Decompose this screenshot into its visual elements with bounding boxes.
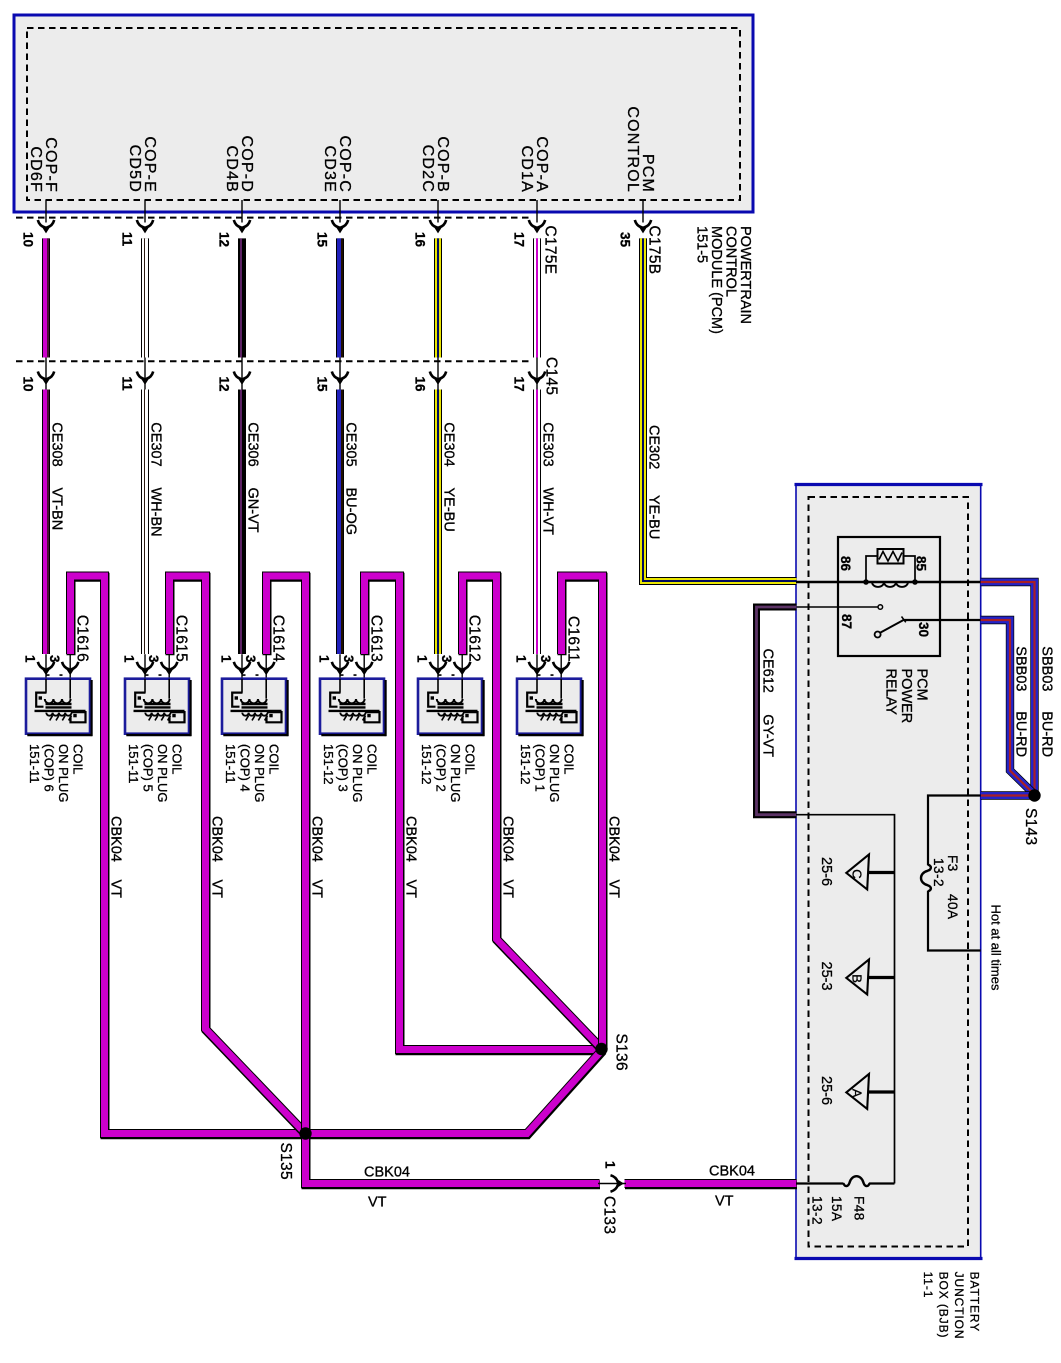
svg-text:WH-VT: WH-VT <box>540 488 556 536</box>
svg-text:1: 1 <box>23 655 38 663</box>
svg-text:CD2C: CD2C <box>419 145 436 193</box>
svg-text:PCM: PCM <box>914 669 930 701</box>
svg-text:B: B <box>850 974 865 983</box>
svg-text:(COP) 5: (COP) 5 <box>140 744 155 792</box>
svg-text:CE302: CE302 <box>646 425 662 469</box>
svg-text:CD5D: CD5D <box>126 145 143 193</box>
svg-text:VT: VT <box>108 880 124 899</box>
svg-text:C: C <box>850 869 865 878</box>
svg-text:10: 10 <box>21 232 36 247</box>
svg-text:CD3E: CD3E <box>321 146 338 193</box>
svg-text:13-2: 13-2 <box>809 1196 824 1225</box>
svg-text:S135: S135 <box>277 1143 294 1180</box>
svg-text:CBK04: CBK04 <box>709 1164 755 1180</box>
svg-text:1: 1 <box>122 655 137 663</box>
svg-text:17: 17 <box>512 232 527 247</box>
svg-text:A: A <box>850 1089 865 1098</box>
svg-text:3: 3 <box>439 655 454 663</box>
svg-text:CE307: CE307 <box>148 422 164 466</box>
svg-text:S143: S143 <box>1022 808 1039 845</box>
svg-text:3: 3 <box>47 655 62 663</box>
svg-text:30: 30 <box>916 622 931 637</box>
svg-text:GN-VT: GN-VT <box>245 488 261 533</box>
svg-text:S136: S136 <box>612 1034 629 1071</box>
svg-text:ON PLUG: ON PLUG <box>56 744 71 803</box>
svg-text:(COP) 3: (COP) 3 <box>335 744 350 792</box>
svg-text:CBK04: CBK04 <box>403 816 419 862</box>
svg-text:CE305: CE305 <box>343 422 359 466</box>
svg-text:JUNCTION: JUNCTION <box>952 1272 966 1340</box>
svg-text:85: 85 <box>914 556 929 572</box>
svg-text:GY-VT: GY-VT <box>759 714 775 757</box>
svg-text:C175E: C175E <box>542 226 559 275</box>
svg-text:15: 15 <box>315 377 330 393</box>
svg-text:POWER: POWER <box>898 669 914 724</box>
svg-text:CBK04: CBK04 <box>108 816 124 862</box>
svg-text:1: 1 <box>514 655 529 663</box>
svg-text:BU-RD: BU-RD <box>1038 711 1054 757</box>
svg-text:C1614: C1614 <box>270 615 287 662</box>
svg-text:COIL: COIL <box>70 744 85 774</box>
svg-text:COIL: COIL <box>462 744 477 774</box>
svg-text:CBK04: CBK04 <box>606 816 622 862</box>
svg-text:C1613: C1613 <box>368 615 385 662</box>
svg-text:(COP) 6: (COP) 6 <box>41 744 56 792</box>
svg-text:25-6: 25-6 <box>818 1076 834 1105</box>
svg-text:ON PLUG: ON PLUG <box>448 744 463 803</box>
svg-text:1: 1 <box>415 655 430 663</box>
svg-text:CE612: CE612 <box>759 649 775 693</box>
svg-text:151-12: 151-12 <box>518 744 533 784</box>
svg-text:VT: VT <box>500 880 516 899</box>
svg-text:11-1: 11-1 <box>921 1272 935 1299</box>
svg-text:(COP) 1: (COP) 1 <box>532 744 547 792</box>
svg-text:151-5: 151-5 <box>694 226 710 263</box>
svg-text:ON PLUG: ON PLUG <box>155 744 170 803</box>
svg-text:CBK04: CBK04 <box>309 816 325 862</box>
svg-text:10: 10 <box>21 377 36 392</box>
svg-text:CBK04: CBK04 <box>500 816 516 862</box>
svg-text:VT: VT <box>309 880 325 899</box>
svg-text:86: 86 <box>838 556 853 572</box>
svg-text:3: 3 <box>243 655 258 663</box>
svg-text:3: 3 <box>341 655 356 663</box>
svg-text:WH-BN: WH-BN <box>148 488 164 537</box>
svg-text:YE-BU: YE-BU <box>646 495 662 539</box>
svg-text:151-11: 151-11 <box>27 744 42 784</box>
svg-text:1: 1 <box>219 655 234 663</box>
svg-text:16: 16 <box>413 377 428 393</box>
svg-text:11: 11 <box>120 377 135 392</box>
svg-text:CD4B: CD4B <box>223 146 240 193</box>
svg-text:25-3: 25-3 <box>818 962 834 991</box>
svg-text:15: 15 <box>315 232 330 248</box>
svg-text:16: 16 <box>413 232 428 248</box>
svg-text:(COP) 4: (COP) 4 <box>237 744 252 792</box>
svg-text:151-11: 151-11 <box>126 744 141 784</box>
svg-text:151-11: 151-11 <box>223 744 238 784</box>
svg-text:CD1A: CD1A <box>518 146 535 193</box>
svg-text:BU-OG: BU-OG <box>343 488 359 536</box>
svg-text:(COP) 2: (COP) 2 <box>433 744 448 792</box>
svg-text:ON PLUG: ON PLUG <box>350 744 365 803</box>
svg-text:CBK04: CBK04 <box>364 1165 410 1181</box>
svg-text:12: 12 <box>217 232 232 247</box>
svg-text:ON PLUG: ON PLUG <box>252 744 267 803</box>
svg-text:151-12: 151-12 <box>419 744 434 784</box>
svg-text:CE308: CE308 <box>49 422 65 466</box>
svg-text:VT-BN: VT-BN <box>49 488 65 531</box>
svg-text:35: 35 <box>618 232 633 248</box>
svg-text:3: 3 <box>538 655 553 663</box>
svg-text:RELAY: RELAY <box>883 669 899 716</box>
svg-text:CONTROL: CONTROL <box>624 106 641 193</box>
svg-text:CE304: CE304 <box>441 422 457 466</box>
svg-text:F3: F3 <box>945 855 960 872</box>
svg-text:COIL: COIL <box>561 744 576 774</box>
svg-text:40A: 40A <box>945 894 960 920</box>
svg-text:CE306: CE306 <box>245 422 261 466</box>
svg-text:F48: F48 <box>851 1196 866 1221</box>
svg-text:25-6: 25-6 <box>818 857 834 886</box>
svg-text:VT: VT <box>715 1194 734 1210</box>
svg-text:87: 87 <box>839 614 854 629</box>
svg-text:C175B: C175B <box>646 226 663 275</box>
svg-text:BU-RD: BU-RD <box>1013 711 1029 757</box>
svg-text:BATTERY: BATTERY <box>967 1272 981 1333</box>
svg-text:VT: VT <box>209 880 225 899</box>
svg-text:YE-BU: YE-BU <box>441 488 457 532</box>
svg-text:Hot at all times: Hot at all times <box>988 905 1003 991</box>
svg-text:VT: VT <box>606 880 622 899</box>
svg-text:11: 11 <box>120 232 135 247</box>
svg-text:1: 1 <box>317 655 332 663</box>
svg-text:1: 1 <box>603 1161 618 1169</box>
svg-text:151-12: 151-12 <box>321 744 336 784</box>
svg-text:C1616: C1616 <box>74 615 91 662</box>
svg-text:CE303: CE303 <box>540 422 556 466</box>
svg-text:C1615: C1615 <box>173 615 190 662</box>
svg-text:C133: C133 <box>601 1196 618 1234</box>
svg-text:15A: 15A <box>829 1196 844 1222</box>
svg-text:SBB03: SBB03 <box>1038 646 1054 691</box>
svg-text:CBK04: CBK04 <box>209 816 225 862</box>
svg-text:COIL: COIL <box>266 744 281 774</box>
svg-text:COIL: COIL <box>169 744 184 774</box>
svg-text:BOX (BJB): BOX (BJB) <box>937 1272 951 1339</box>
svg-text:C1612: C1612 <box>466 615 483 662</box>
svg-text:17: 17 <box>512 377 527 392</box>
svg-text:SBB03: SBB03 <box>1013 646 1029 691</box>
svg-text:3: 3 <box>146 655 161 663</box>
svg-text:COIL: COIL <box>364 744 379 774</box>
svg-text:VT: VT <box>368 1195 387 1211</box>
svg-text:ON PLUG: ON PLUG <box>547 744 562 803</box>
svg-text:C1611: C1611 <box>565 616 582 662</box>
svg-text:12: 12 <box>217 377 232 392</box>
svg-text:C145: C145 <box>543 357 560 395</box>
svg-text:13-2: 13-2 <box>931 858 946 887</box>
svg-text:VT: VT <box>403 880 419 899</box>
svg-text:CD6F: CD6F <box>27 146 44 193</box>
